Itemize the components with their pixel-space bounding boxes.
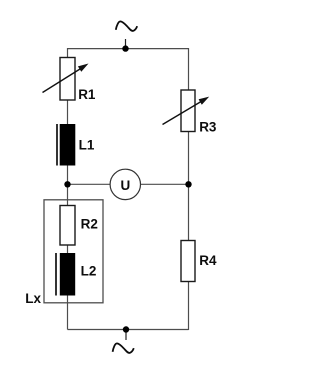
wire bottom source stub <box>125 330 127 341</box>
svg-text:Lx: Lx <box>25 291 41 306</box>
resistor R3 arrow <box>163 100 205 125</box>
wire R3 to node B <box>188 132 190 185</box>
svg-text:L1: L1 <box>79 137 95 152</box>
svg-text:L2: L2 <box>81 264 97 279</box>
svg-text:R2: R2 <box>81 216 98 231</box>
svg-text:R4: R4 <box>199 253 217 268</box>
wire left top vertical (to R1) <box>67 48 69 58</box>
inductor L1 body <box>60 124 76 166</box>
inductor L1 core line <box>56 124 58 166</box>
wire L2 to bottom <box>67 295 69 330</box>
wire voltmeter to node B <box>141 183 189 185</box>
AC source bottom (~) <box>113 343 134 353</box>
resistor R1 arrow <box>43 67 85 93</box>
inductor L2 body <box>60 253 75 296</box>
wire node A to R2 <box>67 184 69 206</box>
resistor R1 body <box>60 58 75 101</box>
node A junction <box>64 181 70 187</box>
voltmeter U1 body <box>110 169 140 199</box>
svg-text:R3: R3 <box>199 119 217 134</box>
wire R4 to bottom <box>188 281 190 330</box>
resistor R3 body <box>181 90 195 132</box>
wire right vertical top (to R3) <box>188 48 190 91</box>
wire top horizontal <box>68 48 189 50</box>
wire bottom horizontal <box>68 329 189 331</box>
resistor R2 body <box>60 206 75 246</box>
Lx component box <box>44 200 103 303</box>
wire node B to R4 <box>188 185 190 241</box>
svg-text:U: U <box>121 178 131 193</box>
wire L1 to node A <box>67 165 69 184</box>
resistor R4 body <box>181 241 195 282</box>
AC source top (~) <box>116 21 137 31</box>
wire top source stub <box>125 39 127 49</box>
node B junction <box>185 181 191 187</box>
svg-text:R1: R1 <box>78 87 96 102</box>
wire R1 to L1 <box>67 100 69 126</box>
wire node A to voltmeter <box>68 183 111 185</box>
node top junction <box>122 45 128 51</box>
wire R2 to L2 <box>67 245 69 254</box>
inductor L2 core line <box>55 253 57 296</box>
node bottom junction <box>123 326 129 332</box>
